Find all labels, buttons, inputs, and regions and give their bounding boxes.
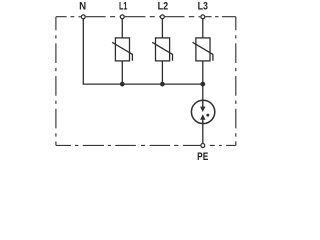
varistor RV3 (L3) <box>193 38 213 61</box>
wire N vertical <box>82 17 84 84</box>
varistor RV2 (L2) <box>152 38 172 61</box>
border right <box>235 17 237 146</box>
border bottom <box>56 144 236 146</box>
border left <box>55 17 57 146</box>
varistor RV1 (L1) <box>112 38 132 61</box>
junction dot L2/bus <box>160 82 165 87</box>
svg-text:L1: L1 <box>119 0 127 12</box>
wire common bus horizontal <box>83 83 203 85</box>
spark gap F1 <box>191 100 214 124</box>
svg-text:PE: PE <box>197 151 208 163</box>
svg-text:N: N <box>79 1 86 12</box>
junction dot L1/bus <box>120 82 125 87</box>
border top <box>56 16 236 18</box>
terminal N <box>81 15 85 19</box>
junction dot L3/bus <box>200 82 205 87</box>
terminal PE <box>201 144 205 148</box>
wire L3 / PE vertical <box>202 17 204 146</box>
terminal L2 <box>160 15 164 19</box>
terminal L3 <box>201 15 205 19</box>
terminal L1 <box>120 15 124 19</box>
svg-text:L3: L3 <box>198 1 209 13</box>
wire L1 vertical <box>121 17 123 84</box>
wire L2 vertical <box>161 17 163 84</box>
svg-text:L2: L2 <box>158 1 169 13</box>
enclosure dashed border (dash-dot) <box>56 17 236 146</box>
